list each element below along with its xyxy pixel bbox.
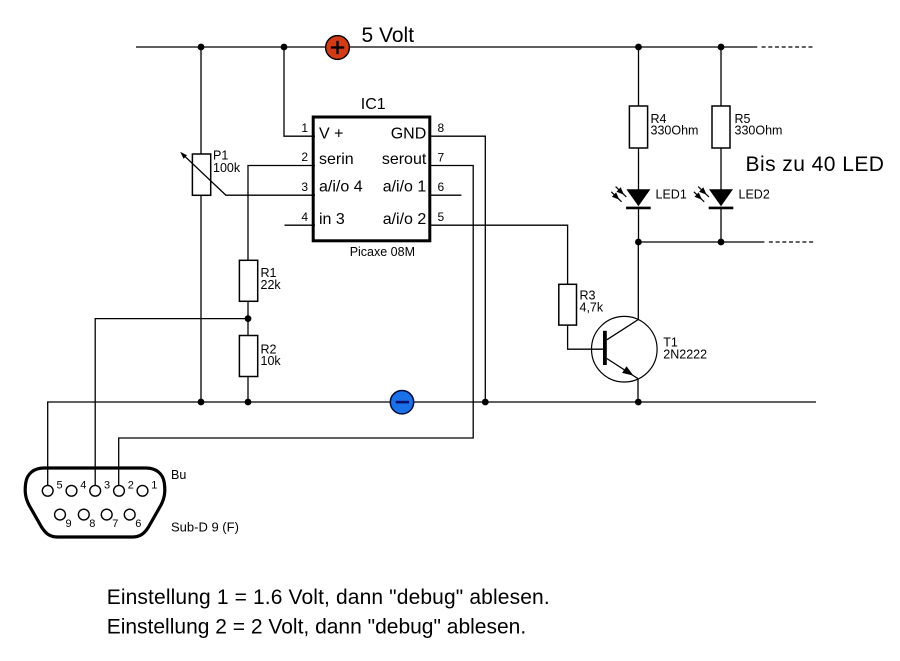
svg-text:Bu: Bu [171, 468, 186, 482]
svg-text:8: 8 [89, 518, 95, 530]
svg-text:V +: V + [319, 126, 343, 143]
svg-text:serin: serin [319, 151, 354, 168]
svg-text:Einstellung 2 = 2 Volt, dann ": Einstellung 2 = 2 Volt, dann "debug" abl… [107, 616, 526, 639]
svg-text:Picaxe 08M: Picaxe 08M [350, 245, 415, 259]
svg-text:3: 3 [301, 180, 308, 194]
svg-text:10k: 10k [261, 354, 282, 368]
svg-text:5: 5 [438, 210, 445, 224]
svg-text:6: 6 [438, 180, 445, 194]
svg-text:a/i/o 4: a/i/o 4 [319, 179, 363, 196]
svg-text:22k: 22k [261, 278, 282, 292]
svg-text:100k: 100k [213, 161, 241, 175]
svg-text:GND: GND [391, 126, 427, 143]
svg-text:9: 9 [66, 518, 72, 530]
svg-text:4: 4 [80, 480, 86, 492]
svg-text:4,7k: 4,7k [580, 301, 604, 315]
svg-text:Bis zu 40 LED: Bis zu 40 LED [746, 153, 885, 176]
svg-text:2: 2 [128, 480, 134, 492]
svg-text:330Ohm: 330Ohm [735, 124, 783, 138]
svg-text:a/i/o 1: a/i/o 1 [383, 179, 427, 196]
svg-text:4: 4 [301, 210, 308, 224]
svg-text:serout: serout [382, 151, 427, 168]
svg-text:6: 6 [135, 518, 141, 530]
svg-text:3: 3 [104, 480, 110, 492]
svg-text:2: 2 [301, 150, 308, 164]
svg-text:in 3: in 3 [319, 211, 345, 228]
svg-text:8: 8 [438, 121, 445, 135]
svg-text:1: 1 [301, 121, 308, 135]
svg-text:a/i/o 2: a/i/o 2 [383, 211, 427, 228]
svg-text:LED1: LED1 [656, 188, 687, 202]
svg-text:7: 7 [438, 151, 445, 165]
svg-text:LED2: LED2 [739, 188, 770, 202]
svg-text:330Ohm: 330Ohm [651, 124, 699, 138]
svg-text:1: 1 [151, 480, 157, 492]
svg-text:2N2222: 2N2222 [663, 348, 707, 362]
svg-text:Sub-D 9 (F): Sub-D 9 (F) [171, 520, 239, 535]
svg-text:7: 7 [112, 518, 118, 530]
svg-text:5: 5 [57, 480, 63, 492]
svg-text:5 Volt: 5 Volt [362, 24, 415, 47]
svg-text:IC1: IC1 [361, 96, 386, 113]
svg-text:Einstellung 1 = 1.6 Volt, dann: Einstellung 1 = 1.6 Volt, dann "debug" a… [107, 586, 550, 609]
